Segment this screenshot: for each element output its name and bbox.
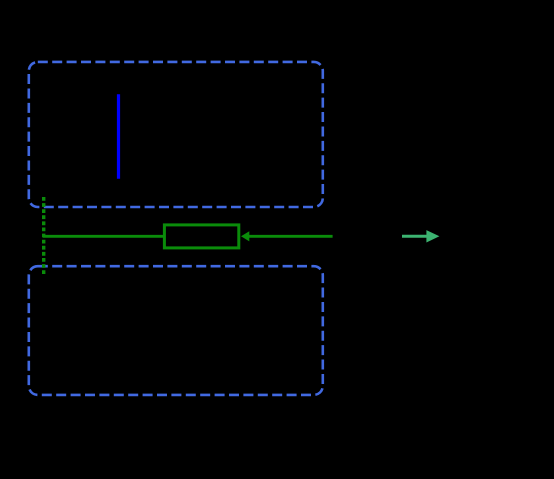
enclosure box B1 (dashed) <box>29 62 323 207</box>
wire W2 <box>248 235 333 238</box>
element E1 (blue line) <box>117 94 120 179</box>
node N1 (dotted stub) <box>42 197 45 275</box>
arrowhead A1 (into resistor) <box>241 231 249 241</box>
resistor R1 <box>164 225 238 248</box>
enclosure box B2 (dashed) <box>29 266 323 395</box>
wire W1 <box>43 235 164 238</box>
current arrow A2 <box>402 235 428 238</box>
